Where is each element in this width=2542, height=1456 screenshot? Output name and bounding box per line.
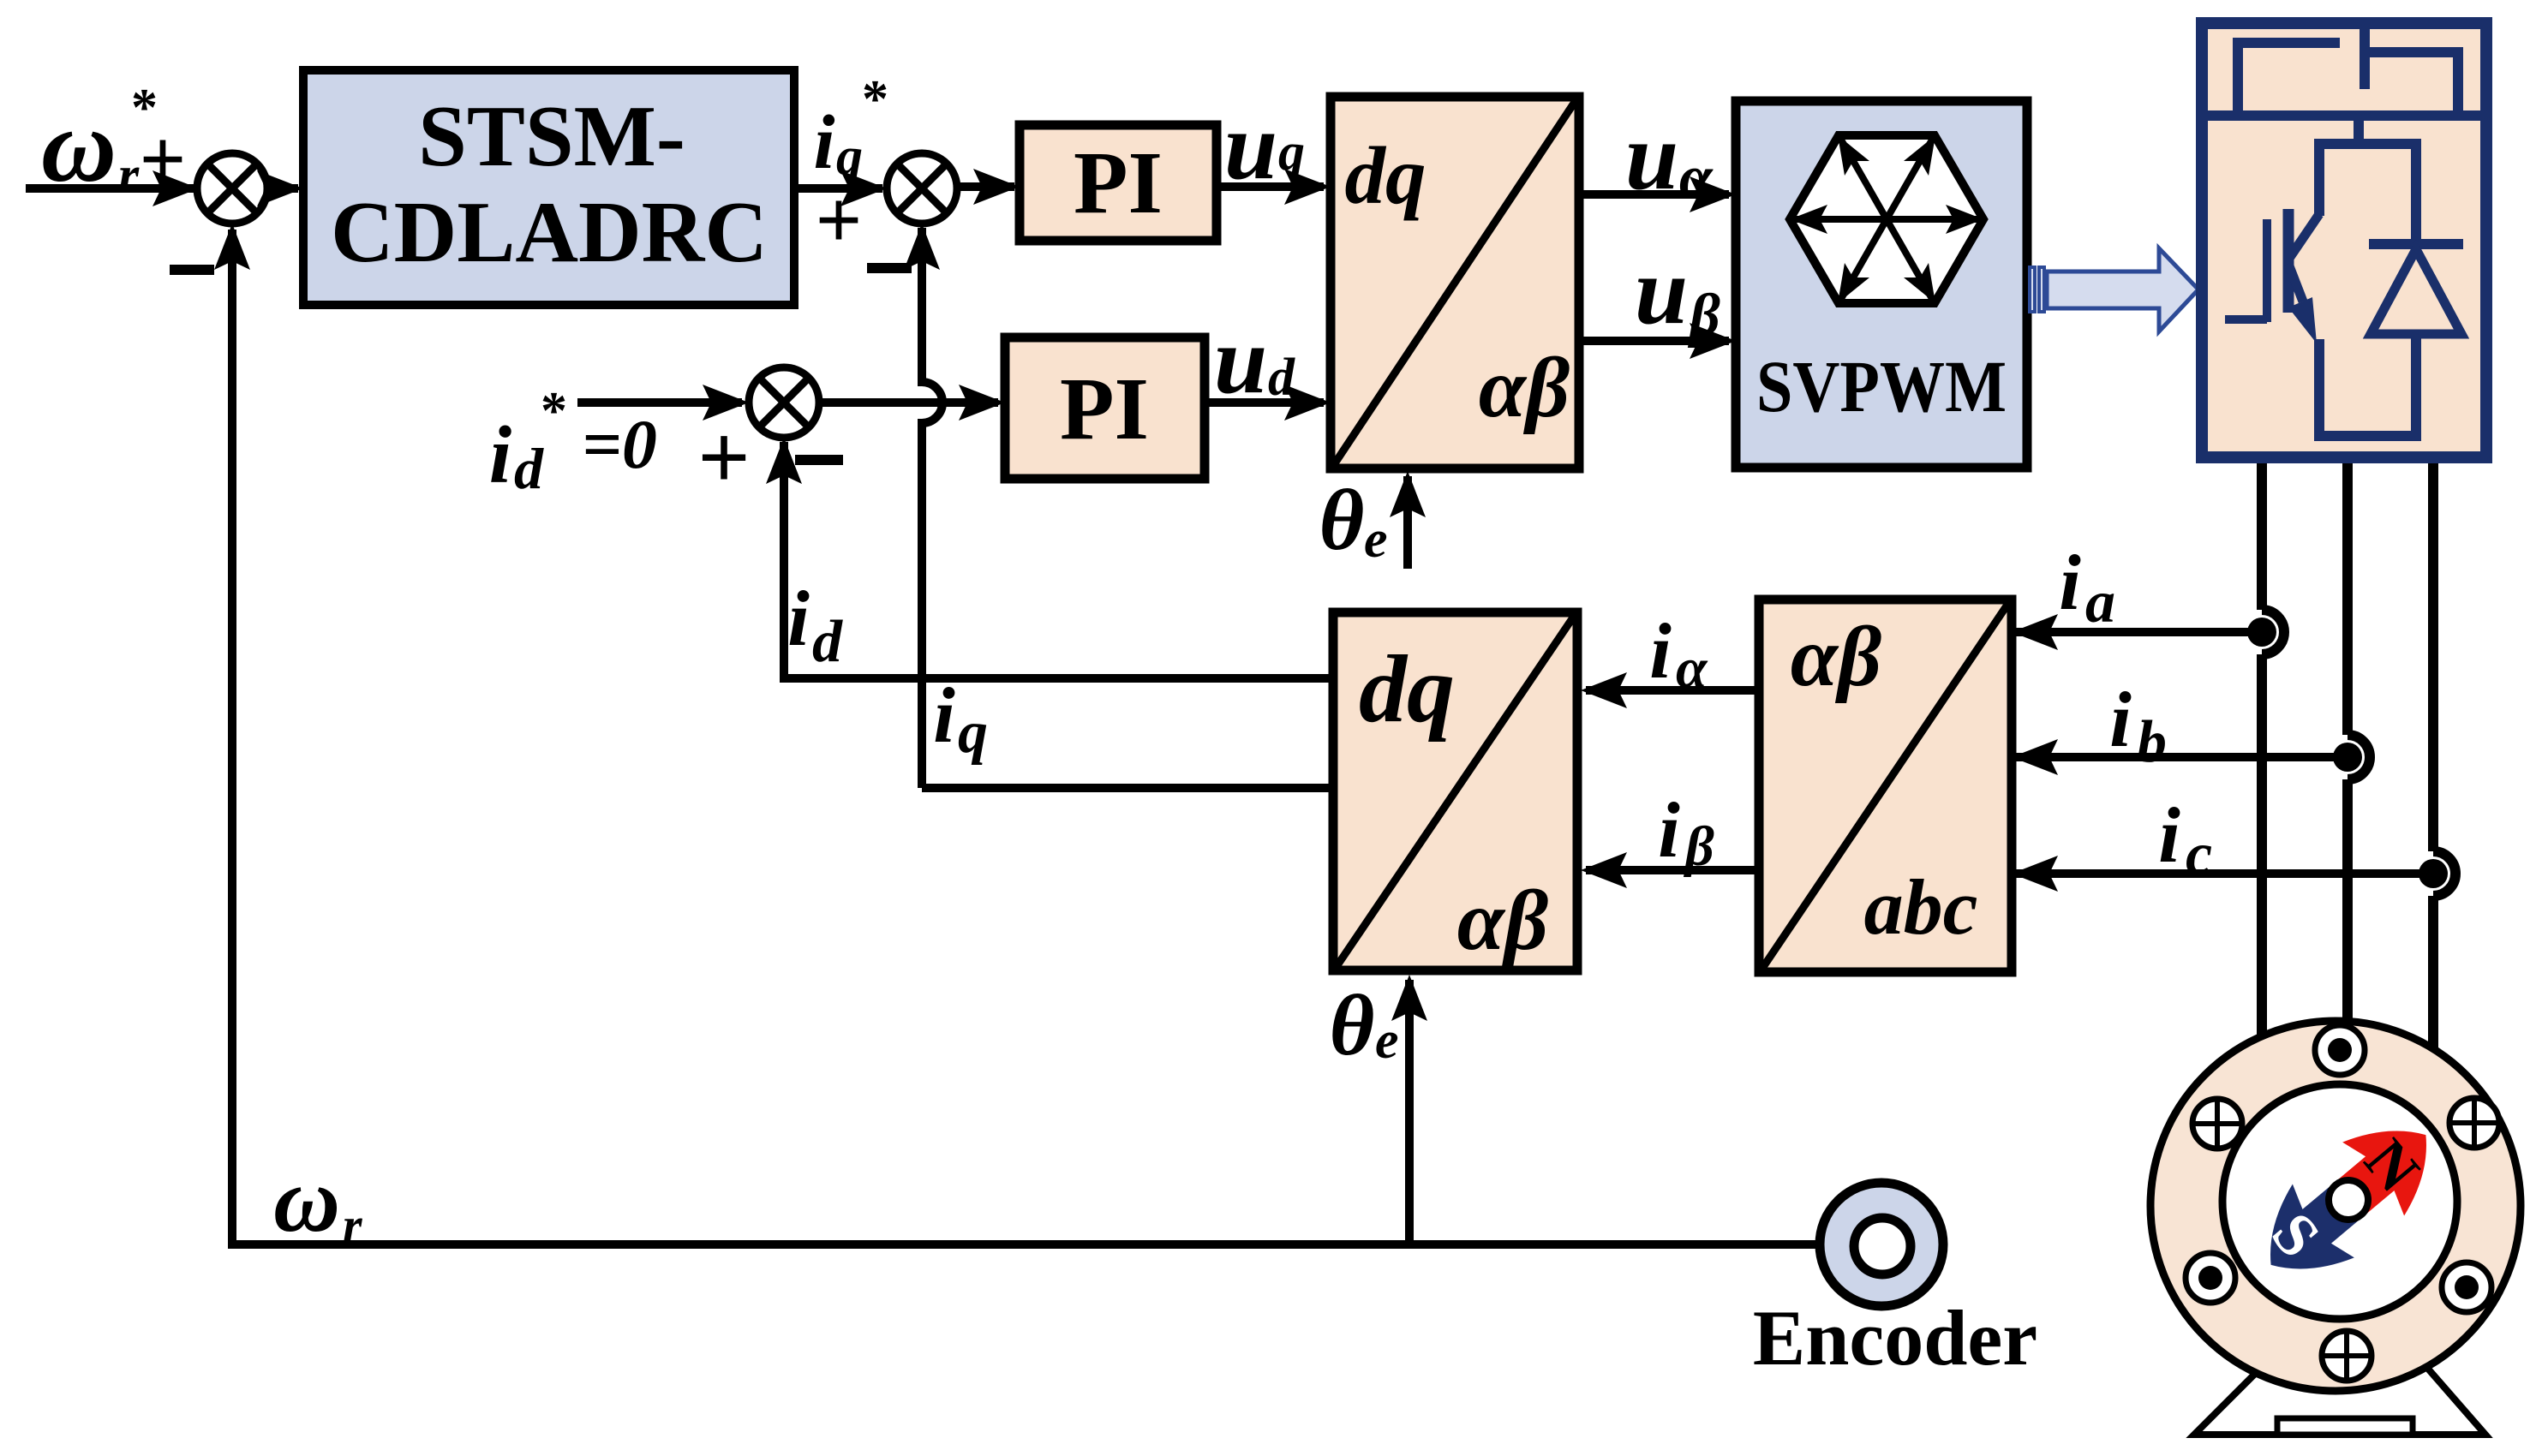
svg-text:αβ: αβ [1791, 609, 1882, 704]
svg-text:b: b [2137, 709, 2167, 775]
svg-text:ω: ω [41, 88, 117, 204]
node wr* label [41, 79, 186, 205]
wire id feedback [766, 438, 1333, 678]
svg-text:abc: abc [1864, 863, 1978, 951]
svg-text:*: * [541, 382, 567, 440]
svg-text:PI: PI [1060, 360, 1149, 458]
svg-text:u: u [1224, 93, 1277, 200]
svg-text:θ: θ [1319, 472, 1365, 569]
wire u-beta [1579, 238, 1736, 359]
svg-text:α: α [1676, 637, 1708, 700]
svg-text:i: i [2109, 676, 2132, 763]
svg-text:Encoder: Encoder [1753, 1294, 2037, 1381]
winding slot upper-left (cross) [2192, 1099, 2242, 1149]
wire u-alpha [1579, 104, 1736, 212]
wire theta-e stub into dq1 [1319, 471, 1426, 569]
wire phase b [2348, 463, 2370, 1021]
wire DC bus centre stub [2360, 23, 2370, 89]
svg-text:+: + [697, 407, 751, 509]
svg-text:+: + [140, 113, 187, 205]
svg-text:αβ: αβ [1479, 340, 1570, 435]
svg-text:i: i [2158, 791, 2180, 879]
svg-text:STSM-: STSM- [418, 88, 685, 185]
wire DC bus left plate [2238, 43, 2340, 116]
wire uq [1217, 93, 1331, 205]
winding slot lower-right (dot) [2442, 1262, 2491, 1312]
block SVPWM [1736, 101, 2027, 468]
transistor IGBT [2225, 209, 2319, 343]
svg-text:e: e [1364, 510, 1388, 569]
svg-text:dq: dq [1359, 636, 1455, 743]
svg-text:i: i [1658, 786, 1680, 874]
winding slot lower-left (dot) [2186, 1253, 2235, 1303]
winding slot upper-right (cross) [2449, 1098, 2499, 1148]
svg-text:*: * [862, 70, 888, 128]
svg-text:d: d [1268, 349, 1295, 407]
svg-text:u: u [1625, 104, 1678, 210]
node id*=0 label [489, 382, 751, 509]
svg-text:q: q [958, 700, 988, 766]
block inverter [2197, 23, 2491, 457]
wire ib tap [2012, 676, 2362, 775]
svg-text:q: q [1278, 123, 1305, 182]
wire STSM to J2 [794, 170, 887, 206]
svg-text:SVPWM: SVPWM [1756, 345, 2007, 427]
svg-text:d: d [514, 436, 544, 501]
svg-text:e: e [1375, 1011, 1399, 1070]
controller STSM-CDLADRC [303, 70, 794, 305]
block PI2 [1005, 337, 1205, 479]
svg-text:dq: dq [1345, 130, 1427, 221]
wire phase c [2433, 463, 2455, 1055]
transform block dq-ab voltage [1331, 97, 1579, 468]
svg-text:u: u [1214, 307, 1267, 414]
wire J3 to PI2 [819, 385, 1005, 421]
svg-text:i: i [813, 100, 834, 185]
svg-text:PI: PI [1074, 134, 1163, 232]
motor PMSM stator [2150, 1021, 2521, 1391]
wire DC bus right plate [2367, 52, 2458, 116]
rotor magnet [2240, 1098, 2457, 1301]
svg-text:i: i [489, 409, 511, 500]
diode D1 [2369, 244, 2463, 334]
svg-text:αβ: αβ [1457, 873, 1549, 968]
summing junction J3 [749, 367, 843, 465]
svg-text:c: c [2186, 821, 2212, 887]
svg-text:α: α [1679, 145, 1714, 211]
wire i-beta [1581, 786, 1759, 888]
summing junction J1 [170, 153, 267, 275]
wire speed feedback [214, 224, 1820, 1253]
wire J1 to STSM [257, 170, 303, 206]
wire IGBT-diode loop [2319, 144, 2416, 436]
wire leg stub [2354, 116, 2364, 147]
motor stand [2194, 1366, 2485, 1435]
transform block dq-ab current [1333, 612, 1577, 970]
block PI1 [1020, 125, 1217, 241]
sensor encoder [1753, 1183, 2037, 1381]
svg-text:β: β [1683, 815, 1714, 878]
wire iq feedback horizontal [922, 671, 1333, 788]
svg-text:a: a [2085, 570, 2115, 636]
svg-text:i: i [787, 575, 810, 662]
wire theta-e to dq2 [1330, 975, 1427, 1244]
svg-text:d: d [812, 609, 843, 675]
svg-text:i: i [933, 671, 955, 759]
svg-text:i: i [1649, 607, 1672, 695]
svg-text:=0: =0 [582, 405, 657, 483]
wire ia tap [2012, 539, 2276, 650]
wire iq feedback vertical with hop [904, 224, 942, 788]
wire ic tap [2012, 791, 2448, 892]
transform block ab-abc current [1759, 600, 2012, 972]
node iq* label [813, 70, 888, 266]
svg-text:θ: θ [1330, 977, 1375, 1074]
svg-text:u: u [1635, 238, 1688, 344]
svg-text:CDLADRC: CDLADRC [331, 184, 768, 281]
connector block arrow SVPWM to inverter [2030, 248, 2198, 331]
svg-text:r: r [343, 1197, 362, 1253]
svg-text:r: r [118, 146, 140, 205]
svg-text:+: + [816, 174, 863, 266]
svg-text:ω: ω [273, 1149, 340, 1251]
svg-text:i: i [2059, 539, 2081, 626]
winding slot bottom (cross) [2322, 1331, 2372, 1381]
summing junction J2 [867, 153, 957, 273]
wire id* input [577, 385, 749, 421]
svg-text:β: β [1687, 283, 1720, 349]
wire phase a [2262, 463, 2284, 1039]
wire ud [1205, 307, 1331, 421]
wire speed reference input [26, 170, 204, 206]
winding slot top (dot) [2315, 1025, 2365, 1075]
wire J2 to PI1 [957, 169, 1020, 205]
wire i-alpha [1581, 607, 1759, 708]
